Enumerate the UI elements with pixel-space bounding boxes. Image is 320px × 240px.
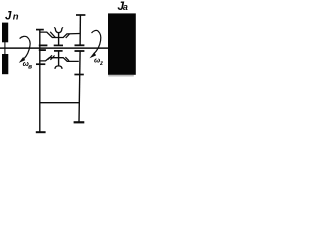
svg-text:n: n	[13, 12, 19, 23]
svg-text:z: z	[99, 61, 103, 67]
svg-text:a: a	[123, 2, 128, 12]
svg-text:в: в	[28, 64, 32, 71]
svg-text:J: J	[5, 10, 12, 22]
